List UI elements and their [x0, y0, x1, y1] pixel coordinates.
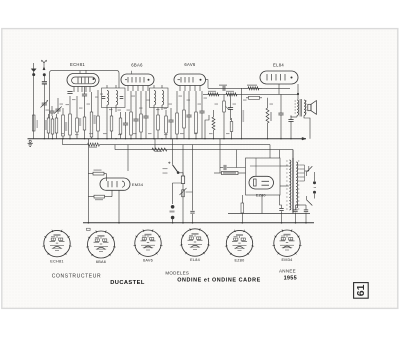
tube socket diagram 6AV6 — [133, 229, 162, 256]
capacitor — [199, 91, 204, 139]
capacitor — [304, 210, 308, 212]
svg-text:EL84: EL84 — [190, 258, 200, 262]
resistor — [90, 92, 93, 139]
coil — [154, 91, 156, 106]
6BA6 internals — [125, 77, 150, 83]
chassis ground bus — [28, 137, 307, 140]
resistor — [248, 87, 259, 90]
resistor — [212, 117, 215, 130]
wire — [292, 150, 294, 157]
wire — [154, 139, 156, 150]
wire vertical — [219, 139, 221, 173]
on-off switch — [168, 162, 183, 176]
EM34 grid resistor — [88, 172, 106, 181]
IF transformer 2 — [150, 88, 169, 108]
coil — [304, 100, 306, 116]
resistor — [226, 93, 237, 96]
grid resistor — [243, 87, 262, 90]
tube socket diagram EM34 — [272, 229, 301, 256]
tube socket diagram 6BA6 — [86, 230, 116, 258]
resistor — [241, 196, 244, 223]
svg-text:EL84: EL84 — [273, 63, 284, 68]
mains wires — [305, 166, 315, 199]
capacitor — [143, 91, 148, 139]
svg-text:EZ80: EZ80 — [256, 193, 266, 197]
ground symbol — [28, 140, 33, 146]
svg-text:ECH81: ECH81 — [50, 259, 64, 263]
mark above 6BA6 socket — [87, 228, 91, 230]
capacitor — [49, 106, 54, 116]
resistor — [266, 108, 269, 123]
wire transformer to EZ80 box — [280, 165, 289, 167]
svg-text:6AV6: 6AV6 — [143, 259, 153, 263]
wire inside rectifier box — [255, 158, 257, 176]
EM34 — [100, 178, 130, 190]
6BA6 grid top stub — [131, 71, 133, 74]
resistor — [183, 91, 186, 139]
svg-text:6BA6: 6BA6 — [96, 260, 106, 264]
coil — [296, 162, 298, 208]
wire grid loop to ECH81 — [50, 71, 120, 118]
6AV6 internals — [178, 77, 202, 83]
resistor — [51, 116, 54, 139]
AVC bus wire — [63, 143, 271, 146]
resistor — [130, 91, 133, 139]
wire vertical — [236, 150, 238, 168]
wire — [114, 145, 116, 150]
resistor — [208, 93, 219, 96]
capacitor — [186, 91, 191, 139]
resistor — [88, 143, 100, 146]
coil — [289, 160, 291, 210]
capacitor — [288, 116, 293, 127]
wire transformer top — [292, 150, 294, 158]
resistor — [181, 176, 184, 184]
svg-text:ONDINE et ONDINE CADRE: ONDINE et ONDINE CADRE — [177, 278, 261, 284]
tuning gang capacitor 1 — [41, 98, 49, 108]
capacitor — [133, 91, 138, 139]
resistor — [165, 110, 168, 139]
svg-text:DUCASTEL: DUCASTEL — [110, 280, 145, 286]
resistor — [69, 96, 72, 139]
capacitor — [67, 92, 72, 94]
antenna coupling coil — [42, 76, 47, 98]
wire — [171, 139, 173, 164]
capacitor — [228, 94, 233, 115]
resistor — [119, 112, 122, 139]
transformer secondary taps — [300, 165, 305, 181]
resistor — [62, 108, 65, 139]
coil — [107, 91, 109, 106]
wire — [62, 139, 64, 145]
wire vertical — [192, 145, 194, 211]
capacitor — [120, 97, 124, 99]
power transformer core — [286, 158, 299, 213]
wire — [279, 150, 281, 158]
EM34 cathode resistor — [88, 190, 112, 198]
ECH81 pin wires — [74, 87, 90, 93]
HT wire to screen — [278, 84, 280, 94]
output pentode EL84 — [260, 71, 298, 84]
resistor — [223, 94, 226, 115]
wire — [171, 183, 173, 204]
EZ80 — [249, 176, 273, 189]
capacitor — [168, 108, 173, 139]
junction dots on heater bus — [88, 222, 307, 224]
resistor — [157, 108, 160, 139]
potentiometer wiper — [180, 184, 193, 223]
wire OT secondary to ground — [304, 116, 310, 139]
6AV6 pin wires — [180, 86, 200, 92]
wire vertical — [267, 98, 269, 108]
resistor — [47, 114, 50, 139]
tuning gang capacitor 2 — [54, 104, 62, 114]
wire — [261, 195, 263, 214]
mains switch — [307, 166, 313, 205]
HT distribution wire — [115, 149, 293, 151]
ground — [28, 143, 33, 146]
resistor — [140, 91, 143, 139]
wire — [43, 108, 45, 139]
EL84 internals — [267, 74, 293, 81]
volume potentiometer — [223, 94, 231, 138]
capacitor — [102, 97, 106, 99]
capacitor — [278, 104, 283, 124]
wire AF line — [208, 87, 290, 89]
svg-text:1955: 1955 — [284, 275, 297, 281]
loudspeaker — [308, 101, 317, 115]
filter resistor 50000 — [214, 171, 246, 174]
output transformer core — [295, 99, 307, 117]
capacitor — [293, 210, 297, 212]
capacitor — [224, 165, 226, 170]
capacitor — [279, 209, 283, 211]
capacitor — [55, 104, 60, 114]
triode-heptode ECH81 — [67, 74, 99, 87]
coil — [162, 91, 164, 106]
tube socket diagram EL84 — [180, 228, 210, 256]
tiny value labels — [46, 94, 274, 136]
rectifier enclosure box — [246, 158, 281, 195]
capacitor — [82, 87, 87, 101]
EM34 internals — [108, 181, 125, 187]
svg-text:EM34: EM34 — [282, 258, 293, 262]
wire — [127, 145, 129, 171]
resistor — [83, 100, 86, 139]
heater bus — [83, 222, 314, 224]
filter capacitor 2 — [304, 205, 308, 223]
IFT2 wires — [154, 85, 162, 139]
svg-text:EM34: EM34 — [132, 182, 144, 187]
svg-text:EZ80: EZ80 — [234, 259, 244, 263]
IF pentode 6BA6 — [121, 74, 154, 86]
page number box 61 — [354, 283, 369, 299]
ECH81 internals — [72, 70, 96, 84]
EZ80 internals — [254, 179, 270, 186]
svg-text:6BA6: 6BA6 — [131, 63, 143, 68]
wire — [292, 213, 294, 214]
svg-text:6AV6: 6AV6 — [184, 62, 196, 67]
capacitor — [123, 112, 128, 139]
resistor — [246, 96, 262, 99]
resistor — [55, 114, 58, 139]
svg-text:MODELES: MODELES — [165, 270, 189, 275]
bus junction dots — [44, 138, 292, 139]
antenna junction — [43, 73, 46, 76]
earth antenna input — [31, 63, 36, 139]
coil — [116, 91, 118, 106]
HT secondary wire — [228, 213, 310, 215]
wire vertical — [182, 145, 184, 176]
wire — [205, 115, 209, 139]
mains plug — [313, 181, 316, 194]
svg-text:CONSTRUCTEUR: CONSTRUCTEUR — [52, 274, 101, 280]
antenna — [42, 60, 47, 70]
wire — [118, 190, 120, 223]
coil — [297, 100, 299, 116]
svg-text:ECH81: ECH81 — [70, 62, 85, 67]
resistor — [230, 118, 233, 139]
resistor — [76, 96, 79, 139]
wire plate to OT — [297, 84, 299, 100]
6BA6 pin wires — [128, 86, 148, 92]
IF transformer 1 — [102, 88, 126, 108]
resistor — [97, 90, 100, 139]
wire vertical — [241, 88, 243, 138]
svg-text:61: 61 — [355, 284, 367, 296]
tube socket diagram EZ80 — [225, 230, 254, 257]
detector triode 6AV6 — [174, 74, 206, 86]
resistor — [176, 91, 179, 139]
capacitor — [223, 86, 225, 91]
wire — [269, 145, 271, 158]
wire vertical — [87, 139, 89, 223]
tube socket diagram ECH81 — [42, 230, 71, 257]
filter capacitor 1 — [293, 205, 297, 223]
dial lamp — [170, 205, 175, 223]
capacitor — [190, 211, 194, 213]
resistor — [110, 108, 113, 139]
wire — [280, 195, 282, 208]
capacitor — [42, 98, 47, 108]
IFT1 trimmer capacitors — [102, 85, 124, 139]
svg-text:~: ~ — [313, 186, 316, 192]
wire — [203, 93, 298, 95]
resistor — [152, 148, 167, 151]
svg-text:ANNEE: ANNEE — [279, 269, 296, 274]
resistor — [32, 115, 38, 131]
resistor — [195, 91, 198, 139]
